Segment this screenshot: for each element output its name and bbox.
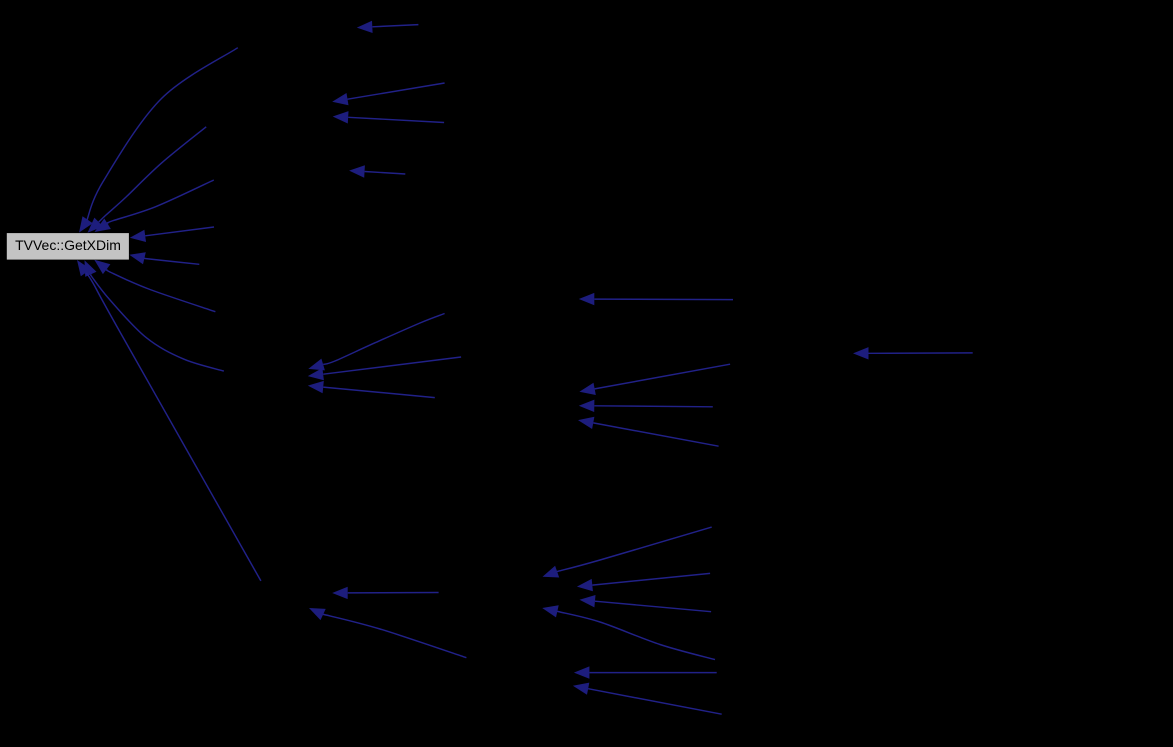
- svg-text:TVVec::GetXDim: TVVec::GetXDim: [15, 237, 121, 253]
